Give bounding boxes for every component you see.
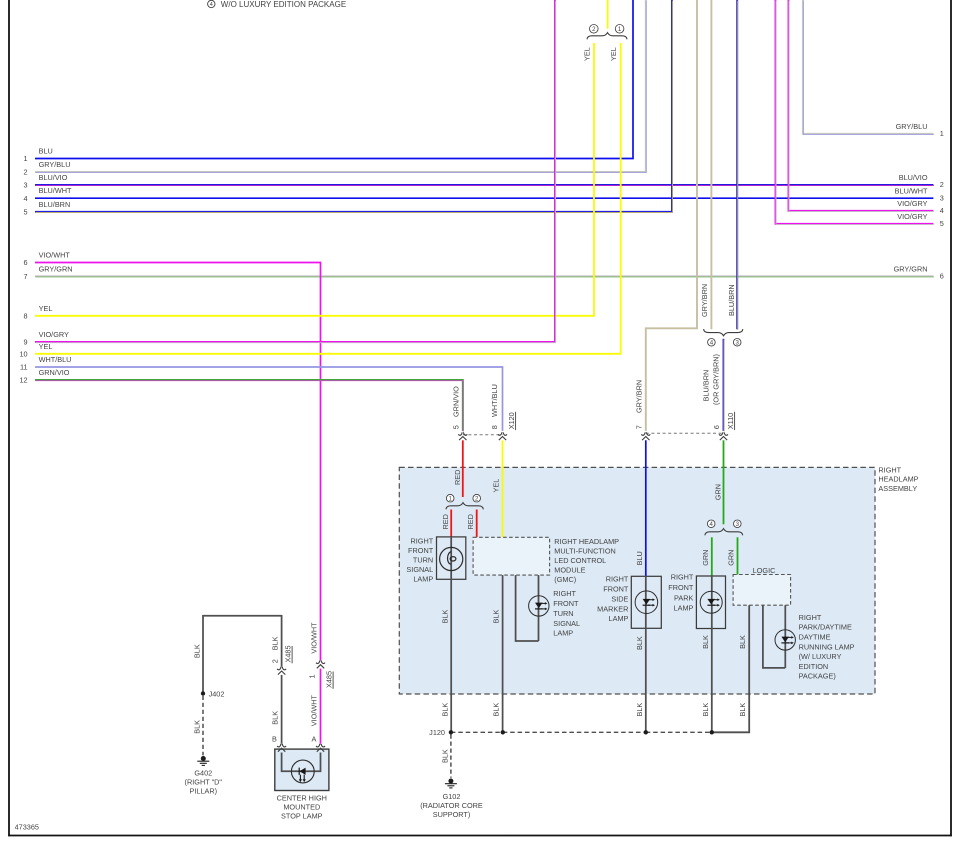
J120 dashed bus: [451, 731, 712, 733]
left pin 2 label GRY/BLU: [24, 160, 71, 177]
svg-text:(W/ LUXURY: (W/ LUXURY: [799, 652, 842, 661]
connector name X110: [726, 412, 735, 430]
circled 2 red: [473, 494, 481, 502]
wire GRY/BRN branch 4: [710, 0, 712, 329]
svg-text:3: 3: [736, 340, 740, 347]
wire GRY/BLU row 2: [35, 0, 646, 173]
svg-text:BLK: BLK: [492, 609, 501, 623]
wire BLU/BRN merged to X110 pin6: [723, 339, 726, 432]
LED D4 park/daytime running lamp: [775, 630, 795, 650]
svg-text:PILLAR): PILLAR): [190, 786, 218, 795]
module label: [554, 537, 619, 584]
svg-text:SIGNAL: SIGNAL: [553, 619, 580, 628]
svg-text:LAMP: LAMP: [674, 603, 694, 612]
pin number 1: [307, 674, 316, 678]
wire GRN branch 4: [711, 537, 713, 576]
wire module LED loop: [516, 575, 539, 641]
svg-text:YEL: YEL: [609, 47, 618, 61]
wire RED branch 2: [476, 510, 478, 538]
junction J120: [449, 730, 453, 734]
svg-text:GRN/VIO: GRN/VIO: [39, 368, 70, 377]
svg-text:BLU/BRN: BLU/BRN: [39, 200, 71, 209]
svg-text:EDITION: EDITION: [799, 662, 829, 671]
svg-text:RIGHT: RIGHT: [553, 589, 576, 598]
right pin 6 label GRY/GRN: [894, 265, 944, 281]
svg-text:2: 2: [270, 659, 279, 663]
svg-text:BLU/WHT: BLU/WHT: [39, 186, 72, 195]
label VIO/WHT above X485: [310, 622, 319, 654]
svg-text:7: 7: [24, 272, 28, 281]
side marker label: [597, 575, 629, 623]
svg-text:SUPPORT): SUPPORT): [433, 810, 471, 819]
svg-text:RIGHT: RIGHT: [799, 613, 822, 622]
svg-text:LAMP: LAMP: [553, 629, 573, 638]
svg-text:4: 4: [940, 206, 944, 215]
wire VIO/GRY right 4: [789, 0, 934, 211]
svg-text:GRY/BRN: GRY/BRN: [700, 284, 709, 317]
dashed tie X120: [463, 434, 503, 436]
svg-text:FRONT: FRONT: [603, 584, 629, 593]
svg-text:A: A: [311, 734, 316, 743]
connector X120 pin 8: [498, 432, 507, 440]
svg-text:STOP LAMP: STOP LAMP: [281, 811, 323, 820]
svg-text:11: 11: [20, 363, 28, 372]
svg-text:X110: X110: [726, 413, 735, 430]
svg-text:RED: RED: [441, 514, 450, 529]
svg-text:YEL: YEL: [39, 304, 53, 313]
svg-text:FRONT: FRONT: [408, 546, 434, 555]
svg-text:BLK: BLK: [270, 711, 279, 725]
circled 1: [615, 25, 624, 34]
svg-text:5: 5: [940, 219, 944, 228]
label BLU/BRN merged: [702, 370, 711, 402]
center stop lamp box: [275, 749, 329, 790]
svg-text:BLK: BLK: [738, 635, 747, 649]
label RED branch1: [441, 514, 450, 529]
right pin 4 label VIO/GRY: [897, 199, 944, 215]
wire BLK dashed to G102: [450, 735, 452, 778]
label G402: [185, 768, 223, 795]
left pin 3 label BLU/VIO: [24, 173, 68, 190]
svg-text:TURN: TURN: [413, 556, 433, 565]
wire BLK side marker: [645, 576, 647, 732]
circled 1 red: [446, 494, 454, 502]
label GRN branch4: [701, 550, 710, 566]
label BLK turn sig inside: [440, 609, 449, 623]
svg-text:4: 4: [710, 340, 714, 347]
right headlamp assembly label: [878, 466, 918, 493]
svg-text:PARK: PARK: [674, 593, 693, 602]
brace red split: [446, 503, 483, 510]
pin number 2: [270, 659, 279, 663]
svg-text:VIO/WHT: VIO/WHT: [39, 251, 71, 260]
wire BLU below pin7: [645, 440, 647, 576]
wire logic LED through: [784, 605, 786, 668]
svg-text:HEADLAMP: HEADLAMP: [878, 475, 918, 484]
left pin 5 label BLU/BRN: [24, 200, 71, 217]
svg-text:6: 6: [24, 258, 28, 267]
connector name X485 pin1: [325, 671, 334, 689]
park lamp box: [696, 576, 725, 629]
svg-text:3: 3: [940, 193, 944, 202]
wire BLU/WHT row 4 left to right 3: [35, 197, 933, 199]
svg-text:4: 4: [710, 521, 714, 528]
wire stop lamp internal: [282, 753, 321, 772]
svg-text:8: 8: [490, 425, 499, 429]
pin number 6: [712, 425, 721, 429]
svg-text:BLK: BLK: [738, 703, 747, 717]
wire module LED through: [538, 575, 540, 641]
label BLU/BRN upper: [727, 284, 736, 316]
wire GRN branch 3: [737, 537, 739, 574]
brace yellow split: [587, 33, 627, 40]
svg-text:BLK: BLK: [440, 609, 449, 623]
svg-text:BLK: BLK: [440, 703, 449, 717]
svg-text:GRY/BLU: GRY/BLU: [39, 160, 71, 169]
label YEL right branch: [609, 47, 618, 61]
connector stop lamp B entry: [277, 744, 286, 752]
svg-text:VIO/WHT: VIO/WHT: [310, 694, 319, 726]
connector X110 pin 6: [719, 432, 728, 440]
svg-text:PARK/DAYTIME: PARK/DAYTIME: [799, 623, 852, 632]
svg-text:LAMP: LAMP: [413, 575, 433, 584]
svg-text:FRONT: FRONT: [668, 583, 694, 592]
svg-text:4: 4: [24, 194, 28, 203]
svg-text:X120: X120: [507, 412, 516, 429]
svg-text:7: 7: [635, 425, 644, 429]
wire BLK dashed to G402: [202, 696, 204, 756]
junction dot side marker: [644, 730, 648, 734]
left pin 11 label WHT/BLU: [20, 355, 71, 372]
left pin 12 label GRN/VIO: [19, 368, 69, 385]
svg-text:LED CONTROL: LED CONTROL: [554, 556, 606, 565]
left pin 1 label BLU: [24, 147, 53, 164]
label BLK above X485: [270, 636, 279, 650]
svg-text:YEL: YEL: [583, 47, 592, 61]
connector name X120: [507, 412, 516, 430]
label BLK lower B: [270, 711, 279, 725]
label OR GRY/BRN: [712, 354, 721, 405]
svg-text:BLU/WHT: BLU/WHT: [895, 186, 928, 195]
left pin 10 label YEL: [19, 342, 52, 359]
svg-text:RIGHT: RIGHT: [878, 466, 901, 475]
svg-text:BLU/VIO: BLU/VIO: [899, 173, 928, 182]
label BLU vert: [635, 551, 644, 565]
svg-text:473365: 473365: [15, 823, 39, 832]
svg-text:BLK: BLK: [492, 703, 501, 717]
junction dot module: [501, 730, 505, 734]
svg-text:6: 6: [712, 425, 721, 429]
svg-text:G402: G402: [194, 768, 212, 777]
svg-text:WHT/BLU: WHT/BLU: [490, 384, 499, 417]
svg-text:YEL: YEL: [492, 479, 501, 493]
wire YEL feeder: [607, 0, 609, 29]
connector X485 pin 2: [277, 667, 286, 675]
wire BLK park lamp: [711, 576, 713, 732]
svg-text:TURN: TURN: [553, 609, 573, 618]
label BLK left riser: [193, 644, 202, 658]
svg-text:WHT/BLU: WHT/BLU: [39, 355, 72, 364]
label BLK park inside: [701, 635, 710, 649]
svg-text:RIGHT: RIGHT: [671, 573, 694, 582]
svg-text:X485: X485: [284, 645, 293, 662]
connector X110 pin 7: [641, 432, 650, 440]
svg-text:1: 1: [307, 674, 316, 678]
svg-text:GRN: GRN: [727, 550, 736, 566]
svg-text:1: 1: [940, 129, 944, 138]
svg-text:BLU: BLU: [39, 147, 53, 156]
label BLK logic inside: [738, 635, 747, 649]
LED D3 park lamp: [700, 591, 722, 613]
svg-text:GRN/VIO: GRN/VIO: [452, 386, 461, 417]
circled 4 merge: [708, 339, 716, 347]
svg-text:SIGNAL: SIGNAL: [406, 565, 433, 574]
wire VIO/WHT row 6 to X485: [35, 263, 321, 661]
svg-text:MODULE: MODULE: [554, 566, 585, 575]
right pin 5 label VIO/GRY: [897, 212, 944, 228]
LED D5 stop lamp: [291, 760, 314, 783]
svg-text:VIO/GRY: VIO/GRY: [897, 212, 927, 221]
svg-text:RIGHT: RIGHT: [606, 575, 629, 584]
svg-text:6: 6: [940, 272, 944, 281]
LED D1 right front turn signal lamp: [529, 596, 549, 616]
wire BLK turn signal down: [450, 537, 452, 732]
LED D1 label: [553, 589, 580, 638]
label RED branch2: [466, 514, 475, 529]
ground G102: [445, 779, 457, 788]
svg-text:J120: J120: [429, 728, 445, 737]
svg-text:VIO/GRY: VIO/GRY: [39, 330, 69, 339]
pin number 7: [635, 425, 644, 429]
LED D4 label: [799, 613, 855, 681]
svg-text:MULTI-FUNCTION: MULTI-FUNCTION: [554, 546, 615, 555]
svg-text:G102: G102: [443, 792, 461, 801]
wire logic LED loop: [763, 605, 785, 668]
svg-text:10: 10: [19, 349, 27, 358]
label BLK to G102: [440, 749, 449, 763]
svg-text:PACKAGE): PACKAGE): [799, 672, 836, 681]
junction J402: [201, 691, 205, 695]
left pin 6 label VIO/WHT: [24, 251, 71, 268]
wire YEL row 8: [35, 43, 594, 316]
svg-text:2: 2: [24, 168, 28, 177]
ground G402: [197, 756, 209, 765]
svg-text:BLU/BRN: BLU/BRN: [702, 370, 711, 402]
svg-text:RIGHT HEADLAMP: RIGHT HEADLAMP: [554, 537, 619, 546]
wire GRN/VIO row 12 to X120: [35, 380, 463, 432]
svg-text:MOUNTED: MOUNTED: [283, 802, 320, 811]
pin number 5: [452, 425, 461, 429]
svg-text:VIO/WHT: VIO/WHT: [310, 622, 319, 654]
brace blu/brn merge: [704, 329, 743, 336]
logic box: [733, 575, 791, 606]
svg-text:MARKER: MARKER: [597, 604, 628, 613]
label GRN branch3: [727, 550, 736, 566]
connector stop lamp A entry: [316, 744, 325, 752]
wire BLK logic to J120: [712, 605, 749, 732]
svg-text:X485: X485: [325, 671, 334, 688]
left pin 4 label BLU/WHT: [24, 186, 72, 203]
svg-text:BLK: BLK: [270, 636, 279, 650]
svg-text:FRONT: FRONT: [553, 599, 579, 608]
wire VIO/WHT below X485: [320, 669, 322, 744]
svg-text:BLK: BLK: [635, 703, 644, 717]
wire YEL row 10: [35, 43, 621, 354]
connector X120 pin 5: [458, 432, 467, 440]
svg-text:2: 2: [475, 495, 479, 502]
wire RED branch 1: [450, 510, 452, 537]
svg-text:J402: J402: [209, 689, 225, 698]
dashed tie X110: [646, 432, 724, 434]
label BLK module outside: [492, 703, 501, 717]
LED D2 side marker: [635, 591, 658, 614]
svg-text:BLK: BLK: [701, 635, 710, 649]
svg-text:YEL: YEL: [39, 342, 53, 351]
wire VIO/GRY row 9: [35, 0, 556, 343]
svg-text:GRN: GRN: [714, 484, 723, 500]
label BLK side marker inside: [635, 636, 644, 650]
wire BLK module down: [502, 575, 504, 732]
turn signal lamp label: [406, 537, 433, 584]
wire BLK stop lamp B up-over: [203, 616, 282, 694]
label YEL left branch: [583, 47, 592, 61]
center stop lamp label: [277, 793, 327, 820]
svg-text:LAMP: LAMP: [609, 614, 629, 623]
label RED vert: [453, 470, 462, 485]
svg-text:B: B: [272, 734, 277, 743]
label VIO/WHT lower A: [310, 694, 319, 726]
connector name X485 pin2: [284, 645, 293, 663]
svg-text:8: 8: [24, 311, 28, 320]
label BLK park outside: [701, 703, 710, 717]
wire RED below pin5: [462, 440, 464, 497]
svg-text:BLK: BLK: [635, 636, 644, 650]
svg-text:W/O LUXURY EDITION PACKAGE: W/O LUXURY EDITION PACKAGE: [221, 0, 346, 9]
svg-text:RED: RED: [466, 514, 475, 529]
svg-text:RED: RED: [453, 470, 462, 485]
svg-text:VIO/GRY: VIO/GRY: [897, 199, 927, 208]
svg-text:BLK: BLK: [193, 720, 202, 734]
svg-text:9: 9: [24, 338, 28, 347]
wire YEL below pin8: [502, 440, 504, 537]
right pin 2 label BLU/VIO: [899, 173, 944, 189]
circled 3 merge: [733, 339, 741, 347]
label BLK module inside: [492, 609, 501, 623]
left pin 8 label YEL: [24, 304, 53, 321]
left pin 7 label GRY/GRN: [24, 264, 73, 281]
circled 2: [590, 25, 599, 34]
side marker lamp box: [631, 576, 661, 628]
svg-text:GRY/GRN: GRY/GRN: [39, 264, 73, 273]
svg-text:GRN: GRN: [701, 550, 710, 566]
svg-text:(RADIATOR CORE: (RADIATOR CORE: [420, 801, 483, 810]
wire GRY/BRN to X110 pin7: [646, 0, 697, 431]
connector X485 pin 1: [316, 661, 325, 669]
svg-text:5: 5: [452, 425, 461, 429]
wire WHT/BLU row 11 to X120: [35, 367, 503, 431]
bulb U1 turn signal: [440, 547, 463, 570]
right pin 3 label BLU/WHT: [895, 186, 944, 202]
label BLK turn sig outside: [440, 703, 449, 717]
label GRN/VIO vert: [452, 386, 461, 417]
brace green split: [705, 529, 743, 536]
label BLK logic outside: [738, 703, 747, 717]
note circled 4: [208, 0, 215, 8]
LED control module box: [473, 537, 549, 575]
svg-text:GRY/BLU: GRY/BLU: [896, 122, 928, 131]
wire BLU/VIO row 3 left to right 2: [35, 184, 934, 187]
circled 4 grn: [707, 520, 715, 528]
svg-text:SIDE: SIDE: [611, 594, 628, 603]
wire BLU/BRN row 5: [35, 0, 673, 212]
svg-text:3: 3: [24, 181, 28, 190]
svg-text:1: 1: [449, 495, 453, 502]
wire GRN below pin6: [723, 440, 725, 524]
svg-text:ASSEMBLY: ASSEMBLY: [878, 484, 917, 493]
label GRY/BRN vert: [635, 380, 644, 413]
svg-text:CENTER HIGH: CENTER HIGH: [277, 793, 327, 802]
wire GRY/BLU right 1: [803, 0, 934, 134]
svg-text:(OR GRY/BRN): (OR GRY/BRN): [712, 354, 721, 405]
svg-text:BLU/VIO: BLU/VIO: [39, 173, 68, 182]
circled 3 grn: [734, 520, 742, 528]
label WHT/BLU vert: [490, 384, 499, 417]
svg-text:GRY/BRN: GRY/BRN: [635, 380, 644, 413]
wire BLU row 1: [35, 0, 633, 159]
left pin 9 label VIO/GRY: [24, 330, 69, 347]
svg-text:(RIGHT "D": (RIGHT "D": [185, 777, 223, 786]
label GRY/BRN upper: [700, 284, 709, 317]
wire VIO/GRY right 5: [776, 0, 934, 224]
svg-text:(GMC): (GMC): [554, 575, 576, 584]
right headlamp assembly box: [399, 467, 875, 694]
label G102: [420, 792, 483, 819]
svg-text:1: 1: [24, 154, 28, 163]
svg-text:BLK: BLK: [701, 703, 710, 717]
park lamp label: [668, 573, 694, 613]
svg-text:RUNNING LAMP: RUNNING LAMP: [799, 642, 855, 651]
turn signal lamp box: [437, 537, 466, 579]
pin number 8: [490, 425, 499, 429]
svg-text:GRY/GRN: GRY/GRN: [894, 265, 928, 274]
svg-text:5: 5: [24, 207, 28, 216]
svg-text:LOGIC: LOGIC: [753, 566, 776, 575]
label YEL below pin8: [492, 479, 501, 493]
junction dot park: [710, 730, 714, 734]
svg-text:RIGHT: RIGHT: [410, 537, 433, 546]
wire BLK below X485: [281, 675, 283, 744]
svg-text:BLU/BRN: BLU/BRN: [727, 284, 736, 316]
svg-text:DAYTIME: DAYTIME: [799, 633, 831, 642]
svg-text:BLK: BLK: [193, 644, 202, 658]
svg-text:BLK: BLK: [440, 749, 449, 763]
right pin 1 label GRY/BLU: [896, 122, 944, 138]
label BLK side marker outside: [635, 703, 644, 717]
label BLK to G402: [193, 720, 202, 734]
svg-text:12: 12: [19, 376, 27, 385]
svg-text:BLU: BLU: [635, 551, 644, 565]
label GRN vert: [714, 484, 723, 500]
wire GRY/GRN row 7 left to right 6: [35, 275, 934, 278]
svg-text:2: 2: [940, 180, 944, 189]
wire BLU/BRN branch 3: [736, 0, 739, 330]
